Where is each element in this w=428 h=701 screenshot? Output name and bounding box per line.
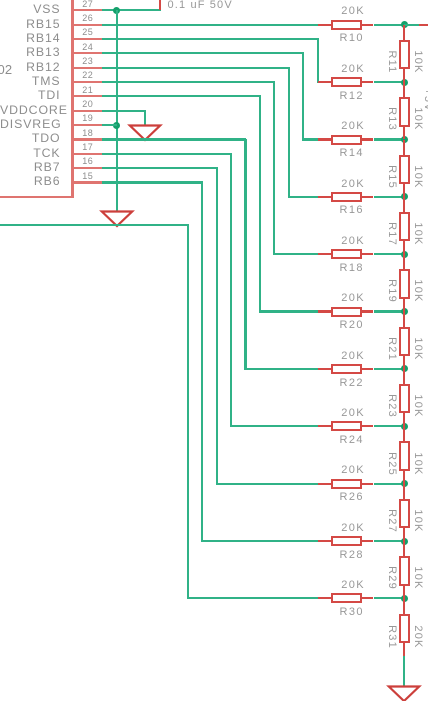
resistor R16 20K (horizontal) xyxy=(318,196,333,198)
junction node at R18/ladder xyxy=(401,251,408,258)
wire xyxy=(374,81,405,83)
wire RB7 (pin 16 to R26) xyxy=(102,167,217,169)
wire to R30 (from left edge) xyxy=(0,224,189,226)
wire RB6 (pin 15 to R28) xyxy=(102,181,203,183)
resistor R12 20K (horizontal) xyxy=(318,81,333,83)
wire VSS vertical xyxy=(116,10,118,211)
junction node at R16/ladder xyxy=(401,193,408,200)
resistor R19 10K (vertical) xyxy=(403,254,405,270)
wire RB15 (pin 26 to R10) xyxy=(102,24,317,26)
IC pin 16 (RB7) xyxy=(73,167,103,169)
wire TMS (pin 22 to R18) xyxy=(102,81,275,83)
IC pin 26 (RB15) xyxy=(73,24,103,26)
junction node at R26/ladder xyxy=(401,480,408,487)
resistor R20 20K (horizontal) xyxy=(318,310,333,312)
resistor R30 20K (horizontal) xyxy=(318,597,333,599)
IC U1 value text '02' (partial) xyxy=(0,63,12,77)
junction node at R28/ladder xyxy=(401,538,408,545)
wire xyxy=(374,597,405,599)
resistor R21 10K (vertical) xyxy=(403,312,405,328)
junction node at R10/ladder xyxy=(401,21,408,28)
capacitor C1 value '0.1 uF 50V' xyxy=(168,0,233,11)
resistor R29 10K (vertical) xyxy=(403,541,405,557)
wire TDI (pin 21 to R20) xyxy=(102,95,261,97)
resistor R14 20K (horizontal) xyxy=(318,138,333,140)
IC pin 19 (DISVREG) xyxy=(73,124,103,126)
wire xyxy=(374,310,405,312)
resistor R28 20K (horizontal) xyxy=(318,540,333,542)
wire xyxy=(374,425,405,427)
wire RB14 (pin 25 to R12) xyxy=(102,38,318,40)
IC pin 25 (RB14) xyxy=(73,38,103,40)
resistor R26 20K (horizontal) xyxy=(318,483,333,485)
IC pin 15 (RB6) xyxy=(73,181,103,183)
IC pin 20 (VDDCORE) xyxy=(73,110,103,112)
resistor R25 10K (vertical) xyxy=(403,426,405,442)
junction node at R20/ladder xyxy=(401,308,408,315)
net label '+5V' (clipped) xyxy=(422,88,428,112)
ground GND3 xyxy=(386,685,422,701)
junction dot (DISVREG on VSS net) xyxy=(113,122,120,129)
wire xyxy=(374,483,405,485)
junction dot (VSS vertical at pin 27) xyxy=(113,7,120,14)
resistor R13 10K (vertical) xyxy=(403,82,405,98)
wire VSS (pin 27 to C lead) xyxy=(102,9,160,11)
junction node at R24/ladder xyxy=(401,423,408,430)
wire xyxy=(374,253,405,255)
off-page component lead (right edge) xyxy=(419,24,428,26)
IC pin 18 (TDO) xyxy=(73,138,103,140)
IC pin 21 (TDI) xyxy=(73,95,103,97)
wire VDDCORE (pin 20) xyxy=(102,110,146,112)
junction node at R22/ladder xyxy=(401,365,408,372)
wire ladder output (to right edge) xyxy=(404,24,418,26)
IC pin 22 (TMS) xyxy=(73,81,103,83)
wire xyxy=(374,138,405,140)
resistor R27 10K (vertical) xyxy=(403,484,405,500)
resistor R23 10K (vertical) xyxy=(403,369,405,385)
ground GND1 xyxy=(99,210,135,228)
resistor R17 10K (vertical) xyxy=(403,197,405,213)
capacitor C1 lead (cut off at top) xyxy=(159,0,161,10)
resistor R10 20K (horizontal) xyxy=(318,24,333,26)
resistor R24 20K (horizontal) xyxy=(318,425,333,427)
resistor R31 20K (vertical) xyxy=(403,598,405,615)
resistor R18 20K (horizontal) xyxy=(318,253,333,255)
IC pin 24 (RB13) xyxy=(73,52,103,54)
wire xyxy=(374,196,405,198)
wire xyxy=(374,368,405,370)
junction node at R12/ladder xyxy=(401,79,408,86)
wire TCK (pin 17 to R24) xyxy=(102,153,232,155)
resistor R11 10K (vertical) xyxy=(403,25,405,41)
wire TDO (pin 18 to R22) xyxy=(102,138,246,140)
resistor R15 10K (vertical) xyxy=(403,140,405,156)
wire DISVREG (pin 19 to VSS net) xyxy=(102,124,116,126)
wire xyxy=(374,24,405,26)
IC pin 23 (RB12) xyxy=(73,67,103,69)
wire R31 to ground xyxy=(403,656,405,687)
junction node at R14/ladder xyxy=(401,136,408,143)
wire RB12 (pin 23 to R16) xyxy=(102,67,290,69)
junction node at R30/ladder xyxy=(401,595,408,602)
IC pin 27 (VSS) xyxy=(73,9,103,11)
wire xyxy=(374,540,405,542)
ground GND2 xyxy=(127,124,163,142)
wire RB13 (pin 24 to R14) xyxy=(102,52,304,54)
resistor R22 20K (horizontal) xyxy=(318,368,333,370)
IC pin 17 (TCK) xyxy=(73,153,103,155)
IC U1 outline (partial) xyxy=(71,0,73,198)
